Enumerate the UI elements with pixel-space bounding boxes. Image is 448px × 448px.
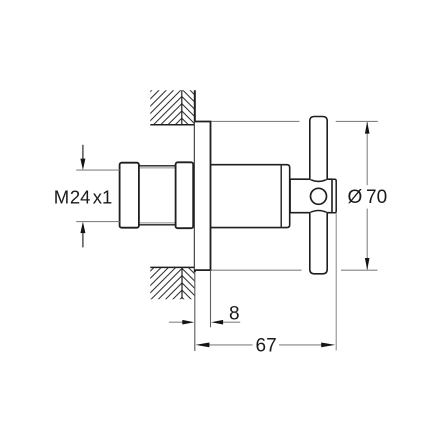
- union nut collar (left): [120, 163, 139, 228]
- dim M24x1 top arrow: [82, 145, 84, 162]
- dim M24x1 top extension line: [76, 169, 119, 171]
- dim 8 extension line (flange edge extended): [210, 270, 212, 327]
- dim 8 line right part with arrow: [222, 321, 241, 323]
- escutcheon flange plate: [195, 122, 211, 271]
- svg-text:Ø 70: Ø 70: [347, 187, 387, 208]
- dim O70 bottom arrow: [365, 258, 370, 270]
- thread M24x1 crest lines: [139, 165, 176, 167]
- dim O70 vertical dimension line: [366, 122, 368, 185]
- handle bar bottom arm: [310, 213, 327, 274]
- dim O70 top extension line: [211, 120, 299, 122]
- dim M24x1 bottom extension line: [76, 221, 119, 223]
- wall hatching top-left (45deg): [148, 52, 183, 152]
- wall top section bottom border: [150, 124, 195, 126]
- handle bar top arm: [310, 117, 327, 180]
- wall hatching top-right band (135deg): [181, 66, 197, 133]
- svg-text:8: 8: [229, 303, 240, 324]
- handle front knob circle: [311, 188, 327, 204]
- handle hub rear end band: [332, 179, 336, 213]
- wall hatching bottom-right band (135deg): [181, 253, 197, 312]
- dim 67 line left segment with arrow: [209, 344, 253, 346]
- dim 67 right extension line (from handle hub): [335, 213, 337, 350]
- dim O70 top arrow: [365, 122, 370, 134]
- valve sleeve bottom edge: [211, 227, 282, 229]
- thread M24x1 root lines: [140, 167, 176, 169]
- wall face line (also extension line for dims 8 and 67): [194, 90, 196, 272]
- svg-text:67: 67: [256, 336, 277, 357]
- sleeve cap ring: [281, 165, 290, 228]
- valve sleeve top edge: [211, 164, 282, 166]
- dim 8 line left part with arrow: [169, 321, 184, 323]
- dim O70 bottom extension line: [211, 269, 301, 271]
- handle hub outline: [290, 179, 332, 213]
- wall bottom section divider line: [181, 267, 183, 298]
- wall top section divider line: [181, 90, 183, 125]
- svg-text:M24x1: M24x1: [54, 186, 112, 207]
- body collar (right of thread): [176, 162, 194, 228]
- wall hatching bottom-left (45deg): [148, 224, 183, 331]
- dim 67 line right segment with arrow: [279, 344, 323, 346]
- wall bottom section top border: [150, 266, 195, 268]
- dim M24x1 bottom arrow: [82, 230, 84, 247]
